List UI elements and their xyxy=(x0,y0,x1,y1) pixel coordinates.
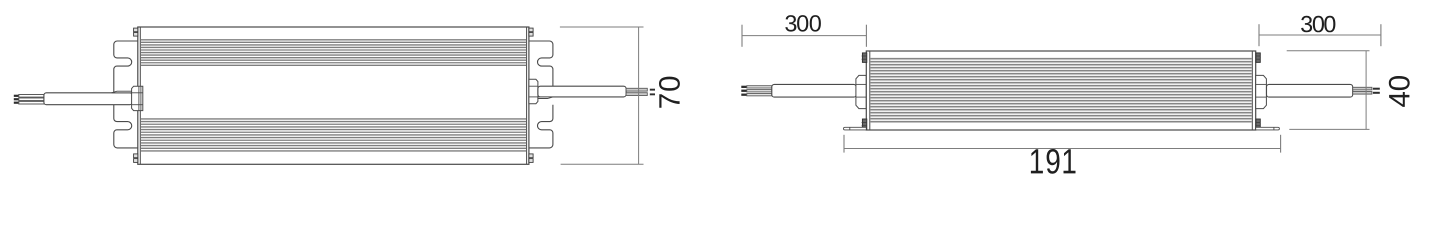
bracket screw bottom-right (side) xyxy=(1256,119,1261,129)
dim 40: extension lines xyxy=(1287,51,1370,130)
gland nut left (side) xyxy=(856,75,867,108)
input cable jacket (side) xyxy=(772,84,856,97)
dim label 300 left xyxy=(785,15,821,32)
dim 300 right: line xyxy=(1259,34,1381,36)
dim 300 left: line xyxy=(742,35,866,37)
input wires xyxy=(19,95,45,105)
output cable jacket (side) xyxy=(1267,84,1353,97)
mounting flange right (side) xyxy=(1256,127,1280,130)
output wire tips xyxy=(650,89,655,96)
dim 300 right: extension bars xyxy=(1259,24,1381,46)
gland nut left xyxy=(132,86,143,110)
dim 70 line xyxy=(638,27,640,164)
body outline (side view) xyxy=(866,51,1255,130)
input cable jacket xyxy=(44,93,132,105)
cable boot left xyxy=(112,91,132,93)
fins top band xyxy=(141,40,526,66)
dim 70 extension line bottom xyxy=(561,163,644,165)
bracket screw bottom-left (side) xyxy=(862,119,867,129)
output wire tips (side) xyxy=(1373,88,1380,94)
fins bottom band xyxy=(141,119,526,151)
end screws top-right xyxy=(529,28,533,36)
dim label 191 xyxy=(1031,149,1076,174)
end screws bottom-right xyxy=(529,154,533,163)
dim 40 line xyxy=(1365,51,1367,130)
dim label 40 xyxy=(1389,76,1410,107)
input wires (side) xyxy=(747,86,772,96)
output wires xyxy=(626,88,647,95)
output wires (side) xyxy=(1353,87,1372,94)
dim label 300 right xyxy=(1301,16,1335,33)
mounting bracket right xyxy=(528,41,553,148)
input wire tips (side) xyxy=(741,86,747,96)
input wire tips xyxy=(14,95,19,104)
dim label 70 xyxy=(659,77,680,108)
end cap lines xyxy=(140,27,526,164)
gland nut right xyxy=(529,79,538,103)
bracket screw top-right (side) xyxy=(1256,53,1261,63)
end screws top-left xyxy=(134,28,138,36)
dim 300 left: extension bars xyxy=(742,25,866,47)
bracket screw top-left (side) xyxy=(862,53,867,63)
body outline (top view) xyxy=(138,27,529,164)
dim 70 extension line top xyxy=(560,26,644,28)
gland nut right (side) xyxy=(1256,75,1267,108)
mounting bracket left xyxy=(114,41,139,148)
fins (side view) xyxy=(870,59,1251,122)
end cap lines (side) xyxy=(870,51,1253,130)
output cable jacket xyxy=(538,86,626,97)
end screws bottom-left xyxy=(134,154,138,163)
dim 191: extension bars xyxy=(844,135,1281,153)
mounting flange left (side) xyxy=(844,127,867,130)
cable boot right xyxy=(538,97,553,99)
dim 191 line xyxy=(844,148,1281,150)
